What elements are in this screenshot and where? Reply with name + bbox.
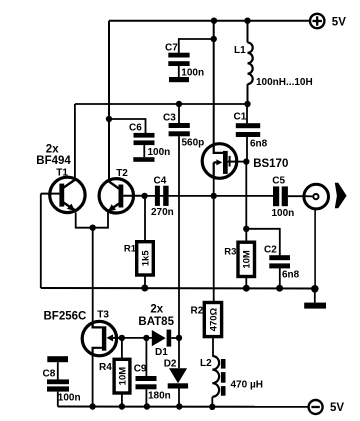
ground (above C8) <box>47 356 68 362</box>
ground (main, right) <box>304 289 326 309</box>
svg-text:470 µH: 470 µH <box>231 380 263 391</box>
node ground tap <box>311 285 319 293</box>
svg-text:L2: L2 <box>200 358 212 369</box>
diode D2 <box>164 338 188 407</box>
svg-text:10M: 10M <box>242 250 253 269</box>
svg-text:5V: 5V <box>332 16 346 28</box>
inductor L1 <box>234 21 313 105</box>
svg-text:R4: R4 <box>99 362 112 373</box>
transistor T2 <box>99 168 144 213</box>
wire T3 source drop <box>92 354 94 407</box>
wire C6 branch <box>109 119 146 133</box>
svg-text:5V: 5V <box>330 402 344 414</box>
node top rail right <box>244 18 250 24</box>
svg-text:C8: C8 <box>43 368 56 379</box>
node T2 base / R1 / C4 <box>141 193 147 199</box>
svg-text:T3: T3 <box>97 309 109 320</box>
node D2 on rail <box>176 403 182 409</box>
svg-text:C5: C5 <box>272 175 285 186</box>
label 2x BF494 <box>36 144 71 168</box>
node C3 tap <box>176 101 182 107</box>
node R3 top <box>243 226 249 232</box>
svg-text:BF494: BF494 <box>36 155 71 167</box>
svg-text:BS170: BS170 <box>253 158 288 170</box>
wire rail x=109 (T2 collector feed) <box>108 21 110 181</box>
resistor R1 <box>124 196 153 288</box>
svg-text:100n: 100n <box>272 208 295 219</box>
resistor R3 <box>224 229 254 288</box>
wire base feedback row y=288 <box>41 287 315 290</box>
svg-text:100n: 100n <box>181 68 204 79</box>
node R4 on rail <box>119 403 125 409</box>
svg-text:C7: C7 <box>165 42 178 53</box>
label BF256C / T3 <box>44 309 110 322</box>
node R3 bottom <box>243 285 250 292</box>
node emitter bus / T3 drain <box>90 225 96 231</box>
svg-text:C9: C9 <box>134 363 147 374</box>
svg-text:2x: 2x <box>46 144 59 156</box>
svg-text:D2: D2 <box>164 359 177 370</box>
svg-text:1k5: 1k5 <box>141 250 152 267</box>
wire rail x=213.7 down to BS170 <box>213 21 215 146</box>
mosfet BS170 <box>202 144 288 179</box>
svg-text:100n: 100n <box>148 147 171 158</box>
capacitor C1 <box>234 104 268 162</box>
svg-text:6n8: 6n8 <box>250 138 268 149</box>
wire gate row to D1 <box>122 337 152 339</box>
transistor T1 <box>41 168 85 213</box>
node R4 tap <box>119 335 125 341</box>
node R1 bottom <box>141 285 148 292</box>
capacitor C4 <box>151 176 174 218</box>
capacitor C9 <box>134 338 171 407</box>
svg-text:R2: R2 <box>191 306 204 317</box>
svg-text:C2: C2 <box>264 245 277 256</box>
svg-text:C3: C3 <box>163 113 176 124</box>
wire BS170 gate drop to R2 <box>213 178 215 302</box>
svg-text:100n: 100n <box>58 393 81 404</box>
svg-text:BF256C: BF256C <box>44 311 87 323</box>
svg-text:100nH...10H: 100nH...10H <box>256 77 313 88</box>
wire C3 feedback line down to diode node <box>178 136 180 337</box>
node C7 branch on rail <box>211 36 217 42</box>
svg-text:C1: C1 <box>234 111 247 122</box>
node BS170 / C1 <box>243 158 249 164</box>
node L1/C1 tap <box>244 101 250 107</box>
+5V terminal <box>310 14 346 28</box>
capacitor C2 <box>246 229 299 288</box>
output terminal <box>304 183 347 289</box>
transistor T3 (JFET) <box>82 321 122 355</box>
svg-text:2x: 2x <box>150 303 163 315</box>
capacitor C5 <box>272 175 295 219</box>
label 2x BAT85 <box>138 303 174 328</box>
node T3 source on rail <box>89 403 95 409</box>
node diode clamp <box>176 335 182 341</box>
wire top supply rail <box>109 20 310 22</box>
svg-text:180n: 180n <box>148 391 171 402</box>
capacitor C3 <box>163 104 204 148</box>
resistor R2 <box>191 303 222 357</box>
svg-text:C4: C4 <box>154 176 167 187</box>
wire C7 branch <box>179 39 214 53</box>
wire source column down <box>245 162 247 229</box>
wire signal row y=196 <box>144 195 304 197</box>
node L2 on rail <box>209 404 215 410</box>
resistor R4 <box>99 338 130 407</box>
ground (below C6) <box>133 157 154 162</box>
wire T1 base drop <box>40 194 42 288</box>
capacitor C8 <box>43 362 81 406</box>
svg-text:T2: T2 <box>116 168 128 179</box>
node BS170 gate on signal row <box>211 193 217 199</box>
node top rail left <box>211 18 217 24</box>
svg-text:R1: R1 <box>124 244 137 255</box>
wire bottom supply rail <box>58 406 309 408</box>
inductor L2 <box>200 356 263 407</box>
svg-text:R3: R3 <box>224 246 236 257</box>
capacitor C7 <box>165 42 204 78</box>
node C9 on rail <box>144 403 150 409</box>
wire T1 collector drop <box>74 104 76 181</box>
svg-text:BAT85: BAT85 <box>138 316 174 328</box>
svg-text:270n: 270n <box>151 207 174 218</box>
wire T3 drain riser <box>92 228 94 328</box>
node junction on rail (C6 tap) <box>106 116 112 122</box>
capacitor C6 <box>129 123 170 158</box>
svg-text:10M: 10M <box>117 367 128 386</box>
svg-text:C6: C6 <box>129 123 142 134</box>
svg-text:470Ω: 470Ω <box>208 307 219 331</box>
diode D1 <box>152 330 179 358</box>
svg-text:T1: T1 <box>56 168 68 179</box>
-5V terminal <box>309 400 345 414</box>
wire BS170 right lead <box>237 161 247 163</box>
wire horizontal y=104 <box>75 103 248 105</box>
wire emitter bus <box>76 212 108 228</box>
svg-text:D1: D1 <box>155 347 168 358</box>
ground (below C7) <box>169 77 189 82</box>
node C2 bottom <box>276 285 283 292</box>
svg-text:560p: 560p <box>182 137 205 148</box>
svg-text:L1: L1 <box>234 45 246 56</box>
node C9 tap <box>143 335 149 341</box>
svg-text:6n8: 6n8 <box>282 269 300 280</box>
